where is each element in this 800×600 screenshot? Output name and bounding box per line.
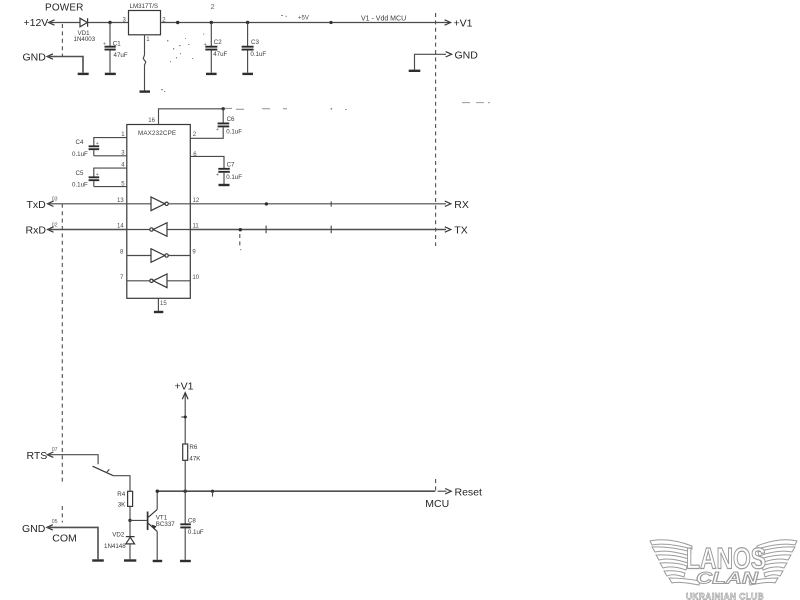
svg-text:R4: R4 [117,491,125,498]
svg-text:+: + [103,42,106,48]
ground [105,73,116,75]
pin 14 [117,224,150,230]
capacitor C8 [180,491,204,560]
resistor R4 [117,491,132,508]
svg-text:C7: C7 [227,161,235,168]
wire pin1 to ground [143,35,146,91]
diode VD2 [104,532,135,550]
svg-text:VD2: VD2 [112,532,125,539]
ground [242,73,253,75]
ground [92,559,104,561]
junction tick [330,226,332,234]
svg-text:+V1: +V1 [454,17,473,29]
ground [78,73,89,75]
buffer T4 [150,274,167,288]
svg-text:POWER: POWER [45,3,84,14]
node GND top right [415,50,479,70]
capacitor C6 [190,109,242,139]
pin 3 [94,150,127,156]
svg-text:Reset: Reset [455,486,483,498]
svg-text:CLAN: CLAN [696,569,759,588]
junction [128,519,131,522]
svg-text:COM: COM [52,533,77,545]
ground [409,70,421,72]
buffer T3 [151,249,168,263]
ground [154,311,163,313]
svg-text:C6: C6 [227,116,235,123]
junction tick [265,226,267,234]
svg-text:12: 12 [193,198,200,204]
wire [184,393,186,444]
svg-text:13: 13 [117,198,124,204]
node +V1 bottom [175,381,194,400]
node RX [445,199,469,211]
junction [210,21,213,24]
wire dashed [61,24,63,56]
svg-text:C3: C3 [251,39,259,46]
junction [239,228,242,231]
svg-text:+: + [204,42,207,48]
pin 15 [158,298,167,311]
wire collector [156,491,158,509]
capacitor C1 [103,23,128,73]
svg-text:10: 10 [192,275,199,281]
node RxD [26,222,58,236]
svg-text:15: 15 [160,301,167,307]
pin 7 [120,275,150,281]
node Reset MCU [425,486,482,510]
wire RxD [48,229,127,231]
svg-text:V1 - Vdd MCU: V1 - Vdd MCU [361,15,406,22]
junction tick [181,416,187,419]
svg-text:3K: 3K [118,501,126,508]
capacitor C4 [72,139,99,158]
wire dashed bus lower [435,479,437,491]
wire RTS [47,455,98,465]
svg-text:+: + [96,172,99,178]
transistor VT1 [148,509,176,531]
wire [129,544,131,559]
node GND COM [22,519,77,545]
svg-text:C8: C8 [188,517,196,524]
svg-text:1N4003: 1N4003 [74,36,96,43]
svg-text:RTS: RTS [27,450,48,462]
buffer T2 [150,223,167,237]
svg-text:2: 2 [211,2,215,11]
pin 1 [94,132,127,146]
wire base [130,519,147,521]
svg-text:LM317T/S: LM317T/S [130,3,159,10]
svg-text:C4: C4 [76,139,84,146]
svg-text:0.1uF: 0.1uF [188,529,204,536]
junction [246,21,249,24]
pin 6 [190,152,224,168]
wire dashed left bus [61,204,63,484]
ground [124,559,136,561]
svg-text:14: 14 [117,224,124,230]
node TX [445,225,468,237]
svg-text:BC337: BC337 [156,521,175,528]
regulator U1 LM317T/S [123,3,167,43]
ground [180,560,191,562]
svg-text:0.1uF: 0.1uF [250,51,266,58]
svg-text:+V1: +V1 [175,381,194,393]
svg-text:MAX232CPE: MAX232CPE [138,130,176,137]
buffer T1 [151,197,168,211]
svg-text:47K: 47K [189,456,201,463]
pin 12 [168,198,200,204]
svg-text:+: + [216,127,219,133]
svg-text:16: 16 [148,118,155,124]
svg-text:MCU: MCU [425,498,449,510]
svg-text:0.1uF: 0.1uF [226,174,242,181]
wire [47,527,98,559]
node RTS [27,447,58,462]
junction [156,490,159,493]
svg-text:UKRAINIAN CLUB: UKRAINIAN CLUB [686,591,764,600]
logo LANOS CLAN [650,540,797,600]
svg-text:R6: R6 [189,444,197,451]
svg-text:C5: C5 [76,170,84,177]
wire TX [190,229,446,231]
svg-text:GND: GND [22,523,46,535]
svg-text:47uF: 47uF [213,51,227,58]
node +V1 [445,17,473,29]
wire dashed stub [239,234,241,247]
pin 10 [167,275,200,281]
junction [108,21,111,24]
ground [140,90,151,92]
svg-text:+5V: +5V [298,16,309,22]
svg-text:GND: GND [455,50,479,62]
node TxD [27,197,58,211]
svg-text:+: + [216,172,219,178]
wire [49,22,81,24]
resistor R6 [183,444,202,491]
junction [222,107,225,110]
svg-text:+12V: +12V [24,17,49,29]
IC U2 MAX232CPE [127,125,191,299]
wire [113,476,130,492]
svg-text:05: 05 [52,519,58,525]
svg-text:+: + [96,141,99,147]
capacitor C2 [204,23,228,73]
svg-text:0.1uF: 0.1uF [72,182,88,189]
junction [184,490,187,493]
ground [219,184,230,186]
wire [129,520,131,536]
wire [129,506,131,520]
junction [265,202,268,205]
svg-text:0.1uF: 0.1uF [72,151,88,158]
junction tick [330,201,332,206]
pin 13 [117,198,151,204]
wire emitter [156,531,158,559]
capacitor C3 [242,23,267,73]
node GND left [23,52,84,73]
junction tick [211,490,214,497]
junction [329,21,332,24]
pin 8 [120,250,151,256]
switch S1 [93,466,114,475]
pin 9 [168,250,196,256]
pin 5 [94,181,127,187]
ground [206,73,217,75]
junction [176,21,179,24]
svg-text:47uF: 47uF [114,52,128,59]
svg-text:TxD: TxD [27,199,47,211]
ground [153,560,163,562]
svg-text:RxD: RxD [26,225,47,237]
pin 4 [94,163,127,177]
pin 16 [148,109,223,125]
wire dashed left bus lower [61,506,63,523]
svg-text:RX: RX [454,199,469,211]
wire [88,22,129,24]
wire reset rail [157,490,435,492]
svg-text:TX: TX [454,225,467,237]
svg-text:GND: GND [23,52,47,64]
diode VD1 [74,18,96,43]
pin 11 [167,224,199,230]
node +12V [24,17,55,29]
wire TxD [48,203,127,205]
wire RX [190,203,446,205]
svg-text:0.1uF: 0.1uF [226,128,242,135]
svg-text:C1: C1 [113,41,121,48]
capacitor C7 [216,161,242,184]
capacitor C5 [72,170,99,189]
svg-text:C2: C2 [214,39,222,46]
wire output rail [161,22,446,24]
svg-text:1N4148: 1N4148 [104,543,126,550]
wire dashed bus [435,13,437,246]
